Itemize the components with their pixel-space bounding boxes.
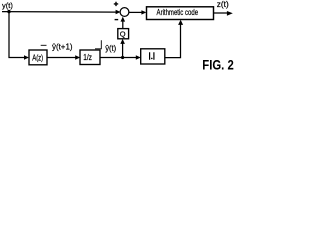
svg-text:Q: Q: [120, 29, 126, 38]
svg-text:FIG. 2: FIG. 2: [202, 56, 234, 72]
svg-text:1/z: 1/z: [83, 53, 92, 62]
svg-text:ŷ(t): ŷ(t): [105, 43, 116, 53]
svg-text:ŷ(t+1): ŷ(t+1): [52, 41, 73, 51]
svg-text:z(t): z(t): [217, 0, 229, 9]
svg-text:y(t): y(t): [2, 1, 13, 10]
svg-text:A(z): A(z): [32, 52, 43, 62]
svg-text:Arithmetic code: Arithmetic code: [157, 8, 199, 17]
